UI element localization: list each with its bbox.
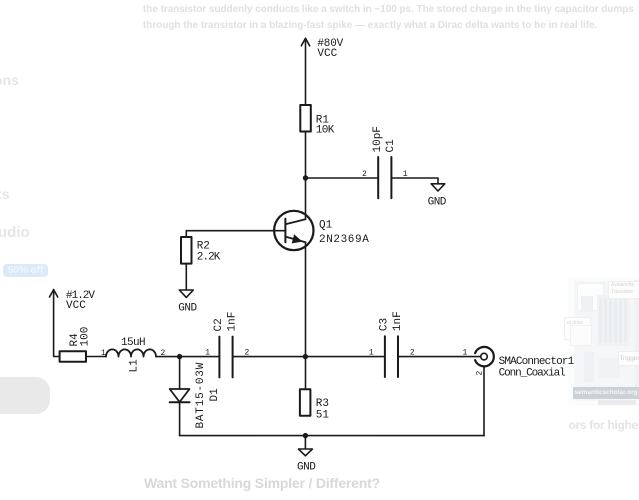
svg-text:2: 2 [476,371,485,376]
wire R2 to GND [185,264,187,290]
svg-text:C1: C1 [385,139,397,153]
wire C2 to C3 [233,356,385,358]
svg-text:1nF: 1nF [392,311,404,331]
node junction bottom [303,433,308,438]
svg-text:1: 1 [463,349,468,358]
resistor R2 [181,237,192,264]
transistor Q1 emitter arrow [292,234,303,243]
svg-text:D1: D1 [209,388,221,402]
gray rounded rectangle left [0,377,50,414]
svg-text:BAT15-03W: BAT15-03W [195,362,207,429]
svg-text:2.2K: 2.2K [197,251,221,263]
faint left sidebar word "udio" [0,224,30,241]
inductor L1 [106,349,156,356]
svg-text:L1: L1 [129,359,141,373]
ground GND (bottom) [298,449,312,456]
svg-text:VCC: VCC [317,48,337,60]
svg-text:1: 1 [205,349,210,358]
node junction below R1 [303,175,308,180]
connector SMAConnector1 inner circle [481,353,488,360]
faint right text "rs for higher" [569,418,639,432]
svg-text:1nF: 1nF [226,312,238,332]
capacitor C2 [219,337,232,378]
node junction emitter line [303,354,308,359]
wire emitter down through junction to R3 [305,242,307,389]
transistor Q1 emitter slant [285,237,305,243]
wire D1 to bottom rail [179,402,181,435]
svg-text:C3: C3 [379,318,391,331]
svg-text:10K: 10K [316,125,335,137]
faint right figure (washed-out paper image) [568,277,639,406]
faint page text top line 1 [143,4,634,15]
ground GND (top right) [431,184,445,191]
wire C1 to GND [391,178,438,184]
wire to bottom GND [304,436,306,449]
svg-text:GND: GND [428,197,447,209]
svg-text:SMAConnector1: SMAConnector1 [499,356,575,368]
wire SMA pin2 down to rail [483,366,485,435]
resistor R4 [60,351,86,362]
transistor Q1 base bar [284,219,286,243]
wire R1 bottom to collector [305,132,307,220]
svg-text:R3: R3 [316,398,329,410]
bottom heading faint [144,475,380,491]
svg-text:2: 2 [362,170,367,179]
wire R4 to L1 [86,356,106,358]
wire C3 to SMA [398,356,481,358]
svg-text:100: 100 [80,327,92,347]
power flag VCC #80V (arrow) [301,38,309,105]
power flag VCC #1.2V (arrow) [50,290,60,357]
svg-text:Conn_Coaxial: Conn_Coaxial [499,368,566,380]
transistor Q1 circle [274,211,313,250]
svg-text:C2: C2 [213,318,225,331]
transistor Q1 collector slant [285,219,305,224]
svg-text:GND: GND [178,303,197,315]
svg-text:10pF: 10pF [372,126,384,152]
connector SMAConnector1 outer circle [475,347,494,366]
svg-text:1: 1 [369,349,374,358]
capacitor C1 [378,157,391,198]
diode D1 triangle [170,389,190,402]
faint left sidebar word "ks" [0,186,10,202]
svg-text:GND: GND [297,461,316,473]
resistor R1 [300,105,311,132]
svg-text:VCC: VCC [66,300,86,312]
node junction at D1 [177,354,182,359]
capacitor C3 [385,336,398,377]
bottom rail wire [180,435,484,437]
svg-text:Q1: Q1 [319,220,333,232]
svg-text:2N2369A: 2N2369A [319,234,369,246]
semanticscholar band [573,387,639,399]
faint left sidebar word "ons" [0,72,19,88]
diode D1 cathode bar [170,401,190,403]
svg-text:15uH: 15uH [121,337,145,349]
wire junction to C1 [306,177,379,179]
resistor R3 [300,389,311,416]
wire L1 to C2 [156,356,219,358]
wire junction down to D1 [179,357,181,389]
50% off badge [3,264,48,277]
svg-text:51: 51 [316,410,330,422]
wire base to R2 [186,230,285,232]
ground GND (below R2) [179,290,193,297]
